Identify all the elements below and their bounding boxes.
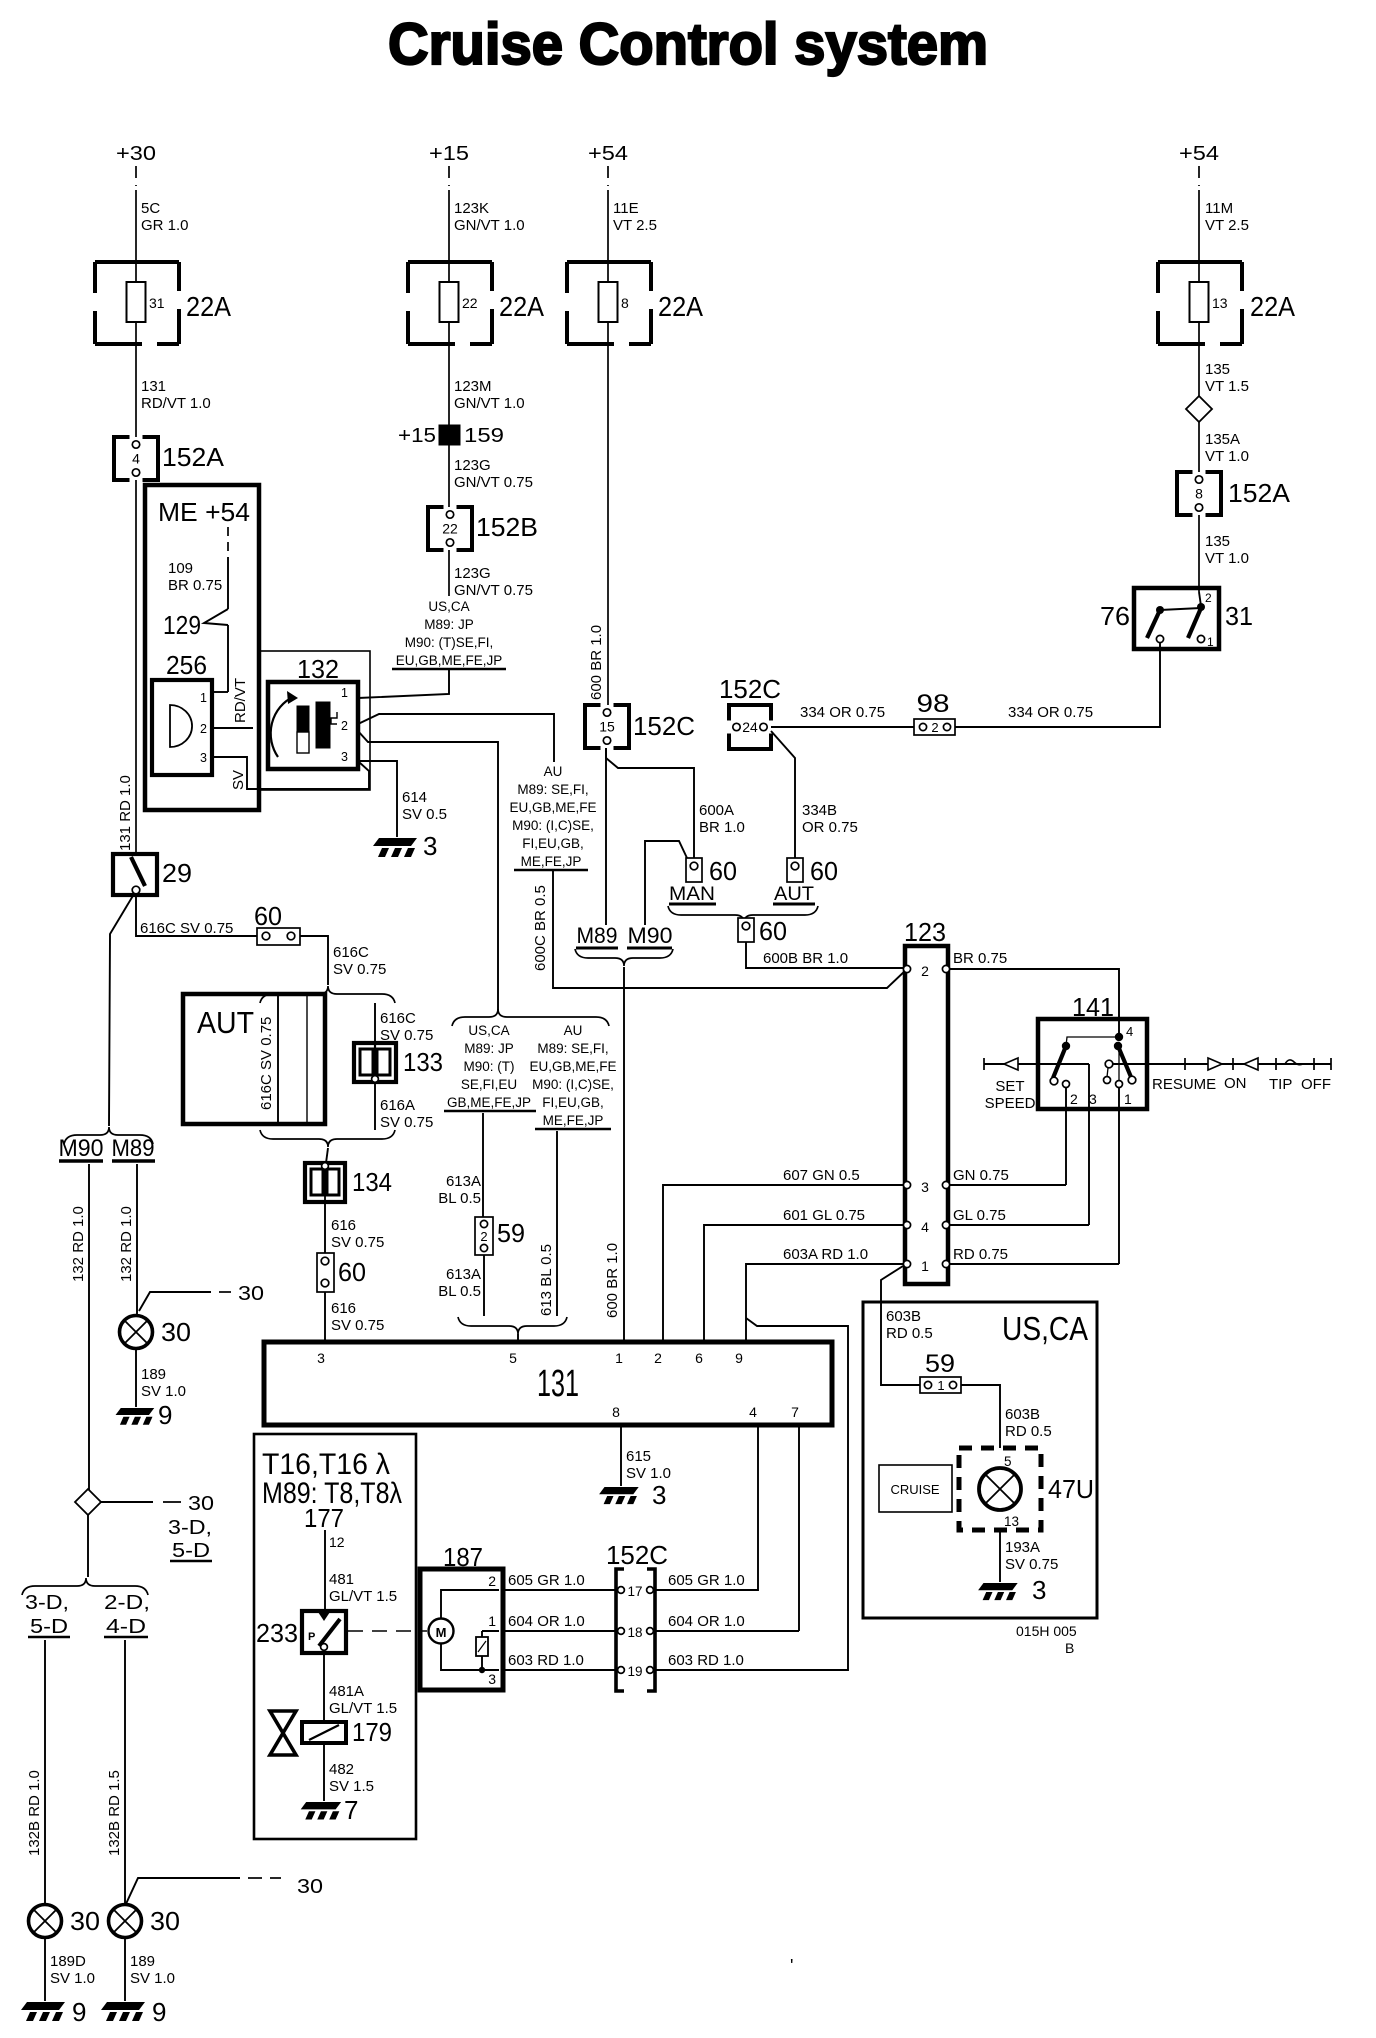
- svg-text:7: 7: [344, 1795, 358, 1825]
- svg-text:22: 22: [462, 295, 478, 311]
- wire 615 SV 1.0: [620, 1425, 622, 1486]
- svg-text:ME +54: ME +54: [158, 497, 250, 527]
- wire 600 BR 1.0 to unit 131 pin 1: [623, 967, 625, 1342]
- wire 131 RD/VT 1.0: [135, 344, 137, 437]
- svg-text:189: 189: [130, 1953, 155, 1970]
- svg-text:3: 3: [921, 1179, 929, 1195]
- svg-text:9: 9: [158, 1400, 172, 1430]
- outer frame around 132: [258, 651, 370, 790]
- terminal 60 horizontal: [257, 928, 300, 945]
- svg-text:1: 1: [1207, 635, 1214, 649]
- svg-text:482: 482: [329, 1761, 354, 1778]
- svg-text:135: 135: [1205, 533, 1230, 550]
- wire 600B BR 1.0: [746, 942, 906, 968]
- svg-text:US,CA: US,CA: [468, 1023, 509, 1038]
- svg-text:9: 9: [152, 1997, 166, 2027]
- svg-text:60: 60: [254, 901, 282, 931]
- wire 600A BR 1.0 from 152C-15: [606, 748, 694, 858]
- fuse 22 22A: [408, 260, 492, 264]
- svg-text:6: 6: [695, 1350, 703, 1366]
- svg-text:EU,GB,ME,FE: EU,GB,ME,FE: [509, 800, 596, 815]
- svg-text:GN/VT 1.0: GN/VT 1.0: [454, 395, 525, 412]
- svg-text:FI,EU,GB,: FI,EU,GB,: [522, 836, 584, 851]
- brace over M90 M89 left: [64, 1127, 153, 1144]
- wire to ignition switch pin 1: [358, 669, 449, 698]
- svg-text:603 RD 1.0: 603 RD 1.0: [508, 1652, 584, 1669]
- svg-text:RD/VT: RD/VT: [232, 678, 249, 723]
- svg-text:601 GL 0.75: 601 GL 0.75: [783, 1207, 865, 1224]
- dashed link 233 to motor: [348, 1630, 427, 1632]
- svg-text:615: 615: [626, 1448, 651, 1465]
- svg-text:76: 76: [1100, 601, 1130, 631]
- wire 616 SV 0.75 to 131 pin 3: [324, 1292, 326, 1342]
- wire 604 OR 1.0 left: [503, 1630, 616, 1632]
- svg-text:+15: +15: [429, 143, 469, 165]
- svg-text:BL 0.5: BL 0.5: [438, 1283, 481, 1300]
- svg-text:SV 1.0: SV 1.0: [50, 1970, 95, 1987]
- terminal 60 common: [738, 918, 754, 942]
- svg-text:BL 0.5: BL 0.5: [438, 1190, 481, 1207]
- svg-text:152C: 152C: [633, 711, 695, 741]
- svg-text:3: 3: [200, 751, 207, 765]
- wire 132B RD 1.0: [44, 1640, 46, 1904]
- svg-text:616C SV 0.75: 616C SV 0.75: [140, 920, 233, 937]
- svg-text:193A: 193A: [1005, 1539, 1040, 1556]
- svg-text:22A: 22A: [499, 291, 544, 322]
- wire 109 BR 0.75 from +54: [227, 527, 229, 557]
- svg-text:AUT: AUT: [197, 1005, 254, 1040]
- svg-text:SV 1.0: SV 1.0: [130, 1970, 175, 1987]
- svg-text:M90: (T): M90: (T): [463, 1059, 514, 1074]
- wire 131 pin4 to 605: [757, 1425, 759, 1591]
- svg-text:603B: 603B: [1005, 1406, 1040, 1423]
- wire BR 0.75 to 141 pin4: [950, 969, 1119, 1037]
- connector 152A pin 8: [1177, 472, 1193, 515]
- svg-text:2: 2: [341, 719, 348, 733]
- svg-text:4: 4: [921, 1219, 929, 1235]
- wire 600C BR 0.5: [553, 870, 906, 988]
- svg-text:600C BR 0.5: 600C BR 0.5: [532, 885, 549, 971]
- svg-text:1: 1: [615, 1350, 623, 1366]
- svg-text:RD 0.5: RD 0.5: [886, 1325, 933, 1342]
- svg-text:AU: AU: [564, 1023, 583, 1038]
- svg-text:18: 18: [627, 1625, 642, 1640]
- brace to 131 pin 5: [458, 1317, 567, 1334]
- svg-text:123G: 123G: [454, 457, 491, 474]
- ground 7: [301, 1802, 341, 1819]
- connector 59 USCA: [920, 1377, 961, 1393]
- svg-text:159: 159: [464, 425, 504, 447]
- svg-text:MAN: MAN: [669, 884, 715, 905]
- wire 603 RD 1.0 right: [656, 1669, 848, 1671]
- svg-text:+54: +54: [1179, 143, 1219, 165]
- svg-text:135: 135: [1205, 361, 1230, 378]
- terminal 60 MAN: [686, 858, 702, 882]
- svg-text:P: P: [308, 1631, 315, 1643]
- wire 616C SV 0.75 to terminal 60: [136, 894, 257, 936]
- svg-text:179: 179: [352, 1717, 392, 1747]
- svg-text:2: 2: [1070, 1091, 1078, 1107]
- wire 132B RD 1.5: [124, 1640, 126, 1905]
- svg-text:31: 31: [1225, 601, 1253, 631]
- svg-text:VT 1.5: VT 1.5: [1205, 378, 1249, 395]
- ground 3 under 132: [373, 838, 417, 857]
- svg-text:30: 30: [150, 1906, 180, 1936]
- connector 134: [305, 1163, 345, 1202]
- svg-text:5-D: 5-D: [172, 1540, 210, 1562]
- svg-text:RD 0.75: RD 0.75: [953, 1246, 1008, 1263]
- svg-text:+54: +54: [588, 143, 628, 165]
- svg-text:015H 005: 015H 005: [1016, 1623, 1077, 1639]
- svg-text:SV 0.5: SV 0.5: [402, 806, 447, 823]
- wire 141 pin1 to RD: [1118, 1088, 1120, 1264]
- svg-text:132B RD 1.0: 132B RD 1.0: [26, 1770, 43, 1856]
- svg-text:134: 134: [352, 1167, 392, 1197]
- svg-text:616C SV 0.75: 616C SV 0.75: [258, 1017, 275, 1110]
- svg-text:98: 98: [917, 690, 950, 718]
- svg-text:132 RD 1.0: 132 RD 1.0: [70, 1206, 87, 1282]
- svg-text:29: 29: [162, 858, 192, 888]
- connector 152A pin 4: [114, 437, 130, 480]
- wire 131 pin7 to 604: [798, 1425, 800, 1631]
- svg-text:189: 189: [141, 1366, 166, 1383]
- svg-text:616C: 616C: [380, 1010, 416, 1027]
- svg-text:US,CA: US,CA: [428, 599, 469, 614]
- svg-text:59: 59: [497, 1218, 525, 1248]
- svg-text:132B RD 1.5: 132B RD 1.5: [106, 1770, 123, 1856]
- svg-text:607 GN 0.5: 607 GN 0.5: [783, 1167, 860, 1184]
- wire 613A BL 0.5 upper: [482, 1113, 484, 1217]
- svg-text:131: 131: [537, 1363, 579, 1405]
- svg-text:2: 2: [931, 720, 938, 735]
- svg-text:334 OR 0.75: 334 OR 0.75: [800, 704, 885, 721]
- wire 132 pin2 to AU note: [358, 714, 554, 762]
- svg-text:1: 1: [937, 1378, 944, 1393]
- svg-text:22: 22: [442, 521, 458, 537]
- cruise control unit 131: [264, 1342, 832, 1425]
- wire 123K GN/VT 1.0: [448, 166, 450, 186]
- svg-text:30: 30: [161, 1317, 191, 1347]
- svg-text:616C: 616C: [333, 944, 369, 961]
- svg-text:ME,FE,JP: ME,FE,JP: [543, 1113, 604, 1128]
- svg-text:11E: 11E: [613, 200, 639, 217]
- svg-text:SV 0.75: SV 0.75: [1005, 1556, 1058, 1573]
- svg-text:600 BR 1.0: 600 BR 1.0: [588, 625, 605, 700]
- svg-text:60: 60: [709, 856, 737, 886]
- svg-text:B: B: [1065, 1640, 1074, 1656]
- svg-text:30: 30: [188, 1493, 214, 1515]
- svg-text:605 GR 1.0: 605 GR 1.0: [508, 1572, 585, 1589]
- lamp 30 left: [29, 1905, 62, 1938]
- svg-text:13: 13: [1212, 295, 1228, 311]
- svg-text:30: 30: [238, 1283, 264, 1305]
- junction 159 +15: [439, 425, 460, 445]
- svg-text:GL/VT 1.5: GL/VT 1.5: [329, 1700, 397, 1717]
- US,CA variant box: [863, 1302, 1097, 1618]
- svg-text:600B BR 1.0: 600B BR 1.0: [763, 950, 848, 967]
- svg-text:5-D: 5-D: [30, 1616, 68, 1638]
- wire 613A BL 0.5 lower: [483, 1255, 485, 1316]
- svg-text:AU: AU: [544, 764, 563, 779]
- svg-text:2: 2: [200, 722, 207, 736]
- connector 59: [475, 1217, 493, 1255]
- svg-text:152A: 152A: [1228, 478, 1291, 508]
- svg-text:GN/VT 1.0: GN/VT 1.0: [454, 217, 525, 234]
- wire 132 RD 1.0 M90 branch: [88, 1164, 90, 1490]
- ground 9 right: [101, 2002, 145, 2021]
- junction diamond M90 chain: [75, 1489, 101, 1515]
- wire 193A SV 0.75: [999, 1530, 1001, 1582]
- svg-text:4: 4: [132, 451, 140, 467]
- wire 11E VT 2.5: [607, 166, 609, 186]
- wire +30 to fuse: [135, 166, 137, 186]
- wire 256 pin2: [212, 727, 253, 729]
- svg-text:7: 7: [791, 1404, 799, 1420]
- branch -30 lower: [125, 1878, 240, 1906]
- svg-text:M: M: [436, 1625, 447, 1640]
- wire 123M GN/VT 1.0: [448, 344, 450, 425]
- wire 189D SV 1.0: [44, 1938, 46, 2001]
- svg-text:EU,GB,ME,FE,JP: EU,GB,ME,FE,JP: [396, 653, 503, 668]
- fuse 13 22A: [1158, 260, 1242, 264]
- svg-text:GL 0.75: GL 0.75: [953, 1207, 1006, 1224]
- svg-text:M90: (I,C)SE,: M90: (I,C)SE,: [512, 818, 594, 833]
- svg-text:123G: 123G: [454, 565, 491, 582]
- ground 9 left: [21, 2002, 65, 2021]
- svg-text:233: 233: [256, 1618, 298, 1648]
- wire 152C-15 to M89: [605, 748, 607, 925]
- svg-text:123: 123: [904, 917, 946, 947]
- wire 132 pin3 to variant notes: [358, 731, 498, 1013]
- svg-text:SV 1.0: SV 1.0: [141, 1383, 186, 1400]
- node 129: [204, 609, 228, 625]
- svg-text:FI,EU,GB,: FI,EU,GB,: [542, 1095, 604, 1110]
- svg-text:GN 0.75: GN 0.75: [953, 1167, 1009, 1184]
- svg-text:3: 3: [341, 750, 348, 764]
- brace over lower variant notes: [452, 1009, 609, 1026]
- lamp 30 right: [109, 1905, 142, 1938]
- motor M: [429, 1619, 454, 1644]
- svg-text:8: 8: [621, 295, 629, 311]
- control unit ME +54 box: [145, 485, 259, 810]
- svg-text:M89: SE,FI,: M89: SE,FI,: [537, 1041, 608, 1056]
- lamp 30 M89: [120, 1316, 153, 1349]
- svg-text:2: 2: [488, 1573, 496, 1589]
- svg-text:603A RD 1.0: 603A RD 1.0: [783, 1246, 868, 1263]
- svg-text:481A: 481A: [329, 1683, 364, 1700]
- wire 605 GR 1.0 left: [503, 1589, 616, 1591]
- svg-text:1: 1: [488, 1613, 496, 1629]
- wire 123G GN/VT 0.75: [448, 445, 450, 507]
- switch 29: [113, 854, 157, 895]
- ground 3 under 131: [599, 1487, 639, 1504]
- wire 603A RD 1.0: [746, 1264, 906, 1342]
- svg-text:481: 481: [329, 1571, 354, 1588]
- wire 334 OR 0.75 from 98 to 24: [771, 726, 914, 728]
- wire 11M VT 2.5: [1198, 166, 1200, 186]
- wire 601 GL 0.75: [704, 1225, 906, 1342]
- svg-text:SV: SV: [230, 770, 247, 790]
- svg-text:19: 19: [627, 1664, 642, 1679]
- svg-text:M89: SE,FI,: M89: SE,FI,: [517, 782, 588, 797]
- wire 189 SV 1.0: [135, 1349, 137, 1407]
- connector 98: [914, 719, 955, 735]
- svg-text:59: 59: [925, 1350, 955, 1378]
- svg-text:604 OR 1.0: 604 OR 1.0: [668, 1613, 745, 1630]
- svg-text:22A: 22A: [1250, 291, 1295, 322]
- svg-text:M90: M90: [59, 1135, 104, 1162]
- wire 29 to M90/M89 brace: [109, 894, 134, 1126]
- svg-text:8: 8: [612, 1404, 620, 1420]
- svg-text:3: 3: [423, 831, 437, 861]
- wire 605 GR 1.0 right: [656, 1589, 758, 1591]
- svg-text:BR 0.75: BR 0.75: [953, 950, 1007, 967]
- brace under MAN AUT: [668, 906, 818, 923]
- svg-text:123K: 123K: [454, 200, 489, 217]
- svg-text:RD/VT 1.0: RD/VT 1.0: [141, 395, 211, 412]
- svg-text:9: 9: [735, 1350, 743, 1366]
- svg-text:SV 0.75: SV 0.75: [380, 1114, 433, 1131]
- wire 132 RD 1.0 M89 branch: [136, 1164, 138, 1316]
- svg-text:SV 0.75: SV 0.75: [331, 1317, 384, 1334]
- ground 9: [116, 1408, 155, 1425]
- CRUISE label box: [879, 1465, 952, 1512]
- svg-text:123M: 123M: [454, 378, 492, 395]
- wire 600 BR 1.0: [607, 344, 609, 705]
- wire 123G GN/VT 0.75 lower: [448, 550, 450, 596]
- svg-text:M89: JP: M89: JP: [424, 617, 474, 632]
- terminal 60 AUT: [787, 858, 803, 882]
- svg-text:177: 177: [304, 1503, 344, 1533]
- svg-text:SET: SET: [995, 1078, 1024, 1095]
- terminal 60 vertical: [317, 1253, 334, 1292]
- branch -30 3-D 5-D: [101, 1501, 153, 1503]
- svg-text:603B: 603B: [886, 1308, 921, 1325]
- svg-text:22A: 22A: [658, 291, 703, 322]
- svg-text:EU,GB,ME,FE: EU,GB,ME,FE: [529, 1059, 616, 1074]
- svg-text:5: 5: [1004, 1454, 1012, 1469]
- svg-text:8: 8: [1195, 486, 1203, 502]
- svg-text:60: 60: [338, 1257, 366, 1287]
- connector 152B pin 22: [428, 507, 444, 550]
- fuse 8 22A: [567, 260, 651, 264]
- svg-text:GN/VT 0.75: GN/VT 0.75: [454, 582, 533, 599]
- brace bottom left: [22, 1578, 148, 1595]
- svg-text:47U: 47U: [1048, 1474, 1094, 1504]
- svg-text:133: 133: [403, 1047, 443, 1077]
- svg-text:1: 1: [200, 691, 207, 705]
- gearbox unit AUT box: [183, 994, 325, 1124]
- connector 152C pin 15: [585, 705, 601, 748]
- junction diamond: [1186, 396, 1212, 422]
- svg-text:614: 614: [402, 789, 427, 806]
- svg-text:189D: 189D: [50, 1953, 86, 1970]
- svg-text:129: 129: [163, 610, 201, 640]
- resistor in 187: [476, 1637, 488, 1656]
- svg-text:1: 1: [921, 1258, 929, 1274]
- svg-text:SV 0.75: SV 0.75: [331, 1234, 384, 1251]
- svg-text:5: 5: [509, 1350, 517, 1366]
- wire 135A VT 1.0: [1198, 422, 1200, 472]
- wire 189 SV 1.0: [124, 1938, 126, 2001]
- svg-text:4-D: 4-D: [106, 1616, 146, 1638]
- ground 3 USCA: [978, 1583, 1018, 1600]
- svg-text:OFF: OFF: [1301, 1076, 1331, 1093]
- brace under AUT and 133: [260, 1130, 395, 1147]
- svg-text:2: 2: [1205, 591, 1212, 605]
- svg-text:TIP: TIP: [1269, 1076, 1292, 1093]
- svg-text:60: 60: [810, 856, 838, 886]
- svg-text:M90: (T)SE,FI,: M90: (T)SE,FI,: [405, 635, 494, 650]
- svg-text:2: 2: [921, 963, 929, 979]
- svg-text:600A: 600A: [699, 802, 734, 819]
- indicator lamp 47U: [959, 1448, 1041, 1530]
- wire 616 SV 0.75 to terminal 60: [324, 1202, 326, 1253]
- svg-text:VT 2.5: VT 2.5: [1205, 217, 1249, 234]
- wire M90 to MAN terminal: [645, 841, 687, 925]
- svg-text:22A: 22A: [186, 291, 231, 322]
- svg-text:152A: 152A: [162, 442, 225, 472]
- connector 133: [354, 1043, 396, 1082]
- relay switch 76 / 31: [1134, 588, 1219, 649]
- variant box T16: [254, 1434, 416, 1839]
- svg-text:GN/VT 0.75: GN/VT 0.75: [454, 474, 533, 491]
- svg-text:152B: 152B: [476, 512, 538, 542]
- svg-text:13: 13: [1004, 1514, 1019, 1529]
- svg-text:24: 24: [742, 719, 758, 735]
- wire 616C to 133: [374, 1003, 376, 1043]
- svg-text:BR 0.75: BR 0.75: [168, 577, 222, 594]
- svg-text:2: 2: [480, 1229, 487, 1244]
- svg-text:603 RD 1.0: 603 RD 1.0: [668, 1652, 744, 1669]
- svg-text:132 RD 1.0: 132 RD 1.0: [118, 1206, 135, 1282]
- svg-text:60: 60: [759, 916, 787, 946]
- svg-text:RD 0.5: RD 0.5: [1005, 1423, 1052, 1440]
- pressure switch 233: [302, 1611, 346, 1653]
- svg-text:VT 1.0: VT 1.0: [1205, 550, 1249, 567]
- svg-text:3: 3: [1089, 1091, 1097, 1107]
- svg-text:': ': [790, 1956, 793, 1976]
- brace under M89 M90: [575, 949, 673, 966]
- svg-text:132: 132: [297, 654, 339, 684]
- svg-text:616: 616: [331, 1217, 356, 1234]
- svg-text:152C: 152C: [606, 1540, 668, 1570]
- svg-text:152C: 152C: [719, 674, 781, 704]
- wire 603B RD 0.5 to lamp: [961, 1385, 1000, 1448]
- brace over AUT and 133: [260, 986, 395, 1003]
- wire to bottom brace: [87, 1515, 89, 1577]
- wire SET SPEED: [984, 1063, 1089, 1065]
- wire 616A SV 0.75: [374, 1082, 376, 1130]
- svg-text:M90: M90: [628, 923, 673, 948]
- svg-text:3: 3: [317, 1350, 325, 1366]
- svg-text:256: 256: [166, 650, 207, 680]
- svg-text:131 RD 1.0: 131 RD 1.0: [117, 775, 134, 851]
- svg-text:605 GR 1.0: 605 GR 1.0: [668, 1572, 745, 1589]
- svg-text:M89: M89: [112, 1135, 155, 1162]
- wire 616C SV 0.75 down to brace: [300, 936, 328, 985]
- svg-text:135A: 135A: [1205, 431, 1240, 448]
- svg-text:131: 131: [141, 378, 166, 395]
- wire 141 pin2 to GN: [1065, 1088, 1067, 1185]
- svg-text:RESUME: RESUME: [1152, 1076, 1216, 1093]
- svg-text:AUT: AUT: [774, 884, 814, 905]
- svg-text:SV 0.75: SV 0.75: [333, 961, 386, 978]
- svg-text:BR 1.0: BR 1.0: [699, 819, 745, 836]
- svg-text:ME,FE,JP: ME,FE,JP: [521, 854, 582, 869]
- svg-text:15: 15: [599, 719, 615, 735]
- svg-text:613 BL 0.5: 613 BL 0.5: [538, 1244, 555, 1316]
